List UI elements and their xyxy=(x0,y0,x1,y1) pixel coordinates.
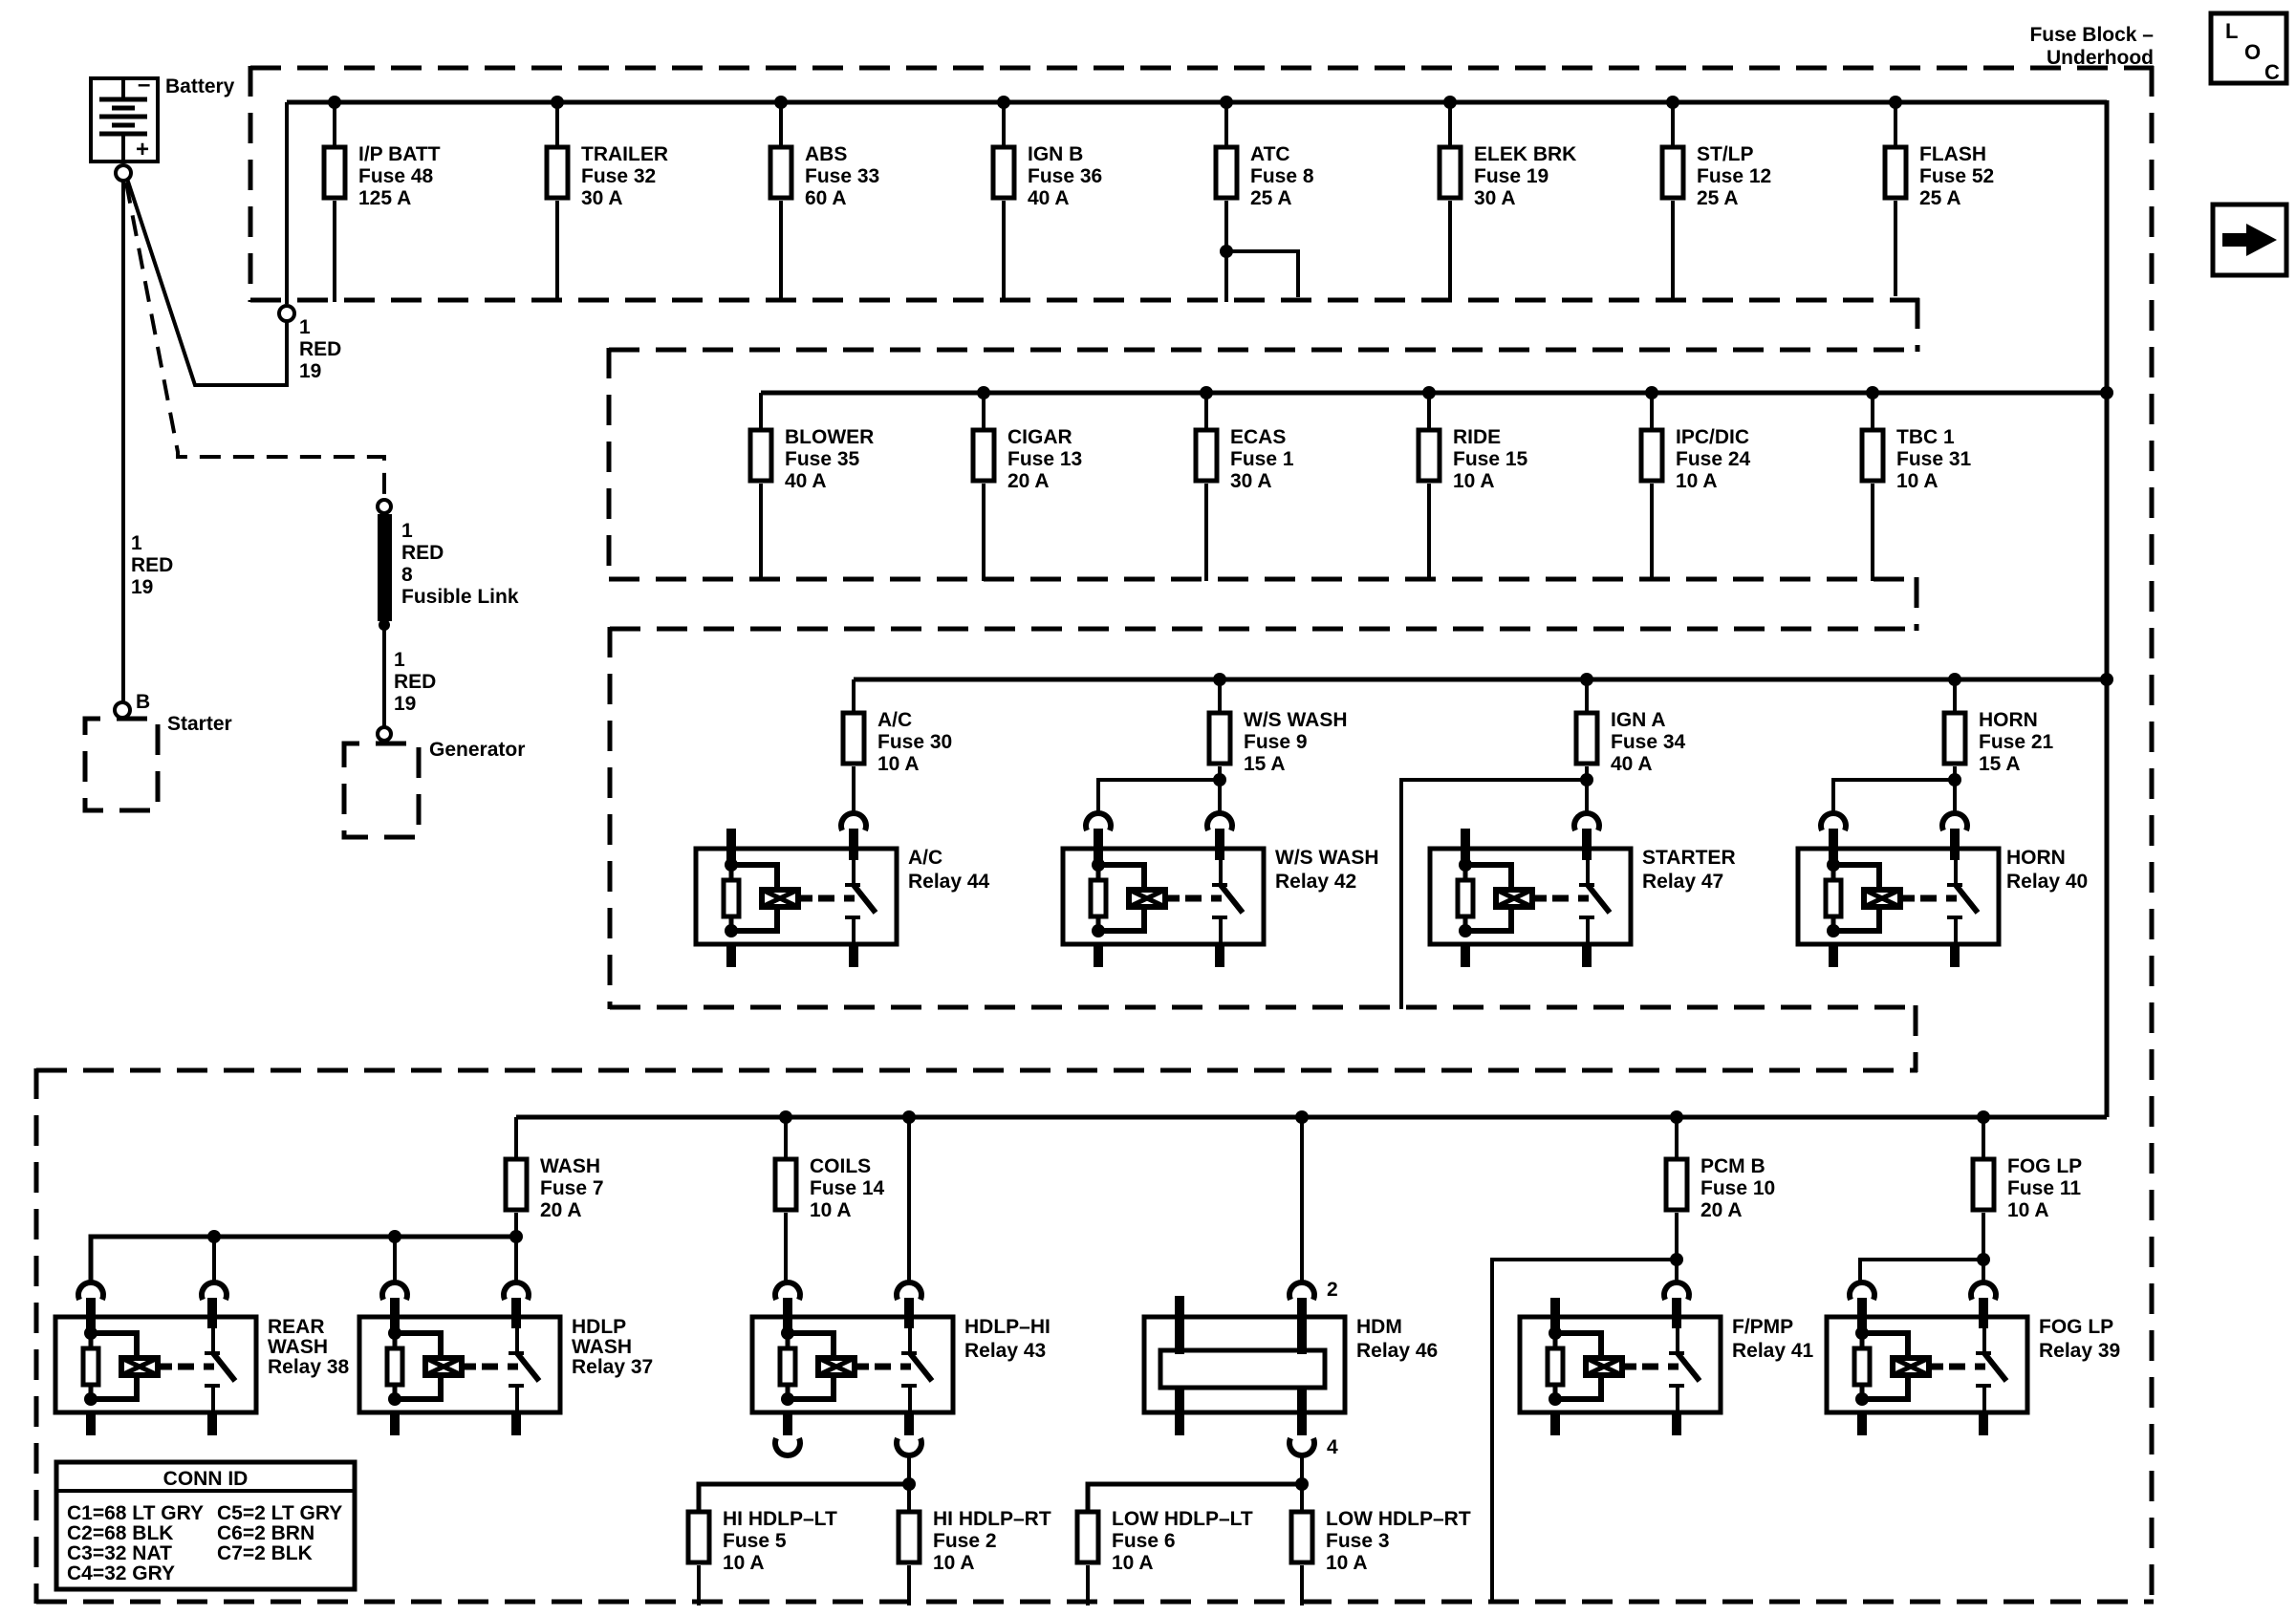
starter terminal ring xyxy=(115,702,130,718)
fuse block box2 bottom edge xyxy=(609,577,1918,582)
wire bus row3 xyxy=(854,678,2107,682)
svg-text:Fuse 30: Fuse 30 xyxy=(877,731,952,753)
fuse Fuse 3 LOW HDLP–RT 10 A + wire xyxy=(1291,1484,1471,1605)
svg-text:20 A: 20 A xyxy=(540,1199,582,1221)
svg-text:15 A: 15 A xyxy=(1244,753,1286,775)
svg-text:ECAS: ECAS xyxy=(1230,426,1286,448)
svg-text:10 A: 10 A xyxy=(723,1552,765,1574)
label Generator xyxy=(429,739,525,761)
svg-text:Fuse 12: Fuse 12 xyxy=(1697,165,1771,187)
svg-text:15 A: 15 A xyxy=(1979,753,2021,775)
junction dot bus3/vertical xyxy=(2100,673,2113,686)
svg-text:Fuse 32: Fuse 32 xyxy=(581,165,656,187)
connector arcs FOG LP relay xyxy=(1850,1282,1996,1300)
label FOG LP Relay 39 xyxy=(2039,1316,2120,1362)
connector ring fuse block feed xyxy=(279,306,294,321)
svg-text:40 A: 40 A xyxy=(785,470,827,492)
wire HDLP-HI switch to HI HDLP sub-bus xyxy=(907,1454,911,1484)
svg-text:Fuse 9: Fuse 9 xyxy=(1244,731,1308,753)
LOC reference box xyxy=(2211,13,2286,84)
svg-text:TRAILER: TRAILER xyxy=(581,143,668,165)
relay A/C Relay 44 xyxy=(696,829,897,967)
svg-text:8: 8 xyxy=(401,564,413,586)
wire bus row4 xyxy=(516,1115,2107,1120)
svg-text:Relay 39: Relay 39 xyxy=(2039,1340,2120,1362)
fuse block box2 left edge xyxy=(607,348,612,581)
svg-text:W/S WASH: W/S WASH xyxy=(1275,847,1379,869)
svg-text:1: 1 xyxy=(394,649,405,671)
svg-text:25 A: 25 A xyxy=(1919,187,1961,209)
label REAR WASH Relay 38 xyxy=(268,1316,350,1378)
fuse Fuse 24 IPC/DIC 10 A + wire xyxy=(1641,386,1751,581)
fusible link terminal ring top xyxy=(378,500,391,513)
svg-text:Starter: Starter xyxy=(167,713,232,735)
svg-text:1: 1 xyxy=(299,316,311,338)
wire feed into fuse block (node at x=300) xyxy=(285,102,289,304)
svg-text:30 A: 30 A xyxy=(581,187,623,209)
connector arc F/PMP relay pin xyxy=(1664,1282,1689,1300)
relay STARTER Relay 47 xyxy=(1430,829,1631,967)
fuse Fuse 21 HORN 15 A + wire xyxy=(1833,673,2054,811)
fuse block underhood dashed boundary (top edge) xyxy=(250,66,2154,71)
svg-text:Fuse 36: Fuse 36 xyxy=(1028,165,1102,187)
fusible link terminal ring bottom xyxy=(378,727,391,741)
svg-text:WASH: WASH xyxy=(268,1336,328,1358)
wire bus4 tap to HDLP-HI switch pin xyxy=(902,1110,916,1281)
svg-text:Fuse 13: Fuse 13 xyxy=(1007,448,1082,470)
svg-text:10 A: 10 A xyxy=(810,1199,852,1221)
svg-text:Fuse 7: Fuse 7 xyxy=(540,1177,604,1199)
svg-text:C2=68 BLK: C2=68 BLK xyxy=(67,1522,173,1544)
connector arcs W/S WASH relay xyxy=(1086,813,1232,830)
svg-text:Fuse 10: Fuse 10 xyxy=(1700,1177,1775,1199)
fuse block box1 bottom edge xyxy=(250,298,1919,303)
svg-text:FOG LP: FOG LP xyxy=(2007,1155,2082,1177)
wire wash relay sub-bus xyxy=(91,1230,523,1281)
svg-text:60 A: 60 A xyxy=(805,187,847,209)
fuse block box1 left edge xyxy=(249,66,253,302)
fuse Fuse 10 PCM B 20 A + wire xyxy=(1492,1110,1775,1604)
svg-text:BLOWER: BLOWER xyxy=(785,426,874,448)
svg-text:–: – xyxy=(138,72,150,97)
wire HDM pin 4 to LOW HDLP sub-bus xyxy=(1300,1454,1304,1484)
svg-text:HDLP: HDLP xyxy=(572,1316,626,1338)
svg-text:RED: RED xyxy=(394,671,436,693)
svg-text:ABS: ABS xyxy=(805,143,847,165)
svg-text:Relay 41: Relay 41 xyxy=(1732,1340,1814,1362)
svg-text:10 A: 10 A xyxy=(2007,1199,2049,1221)
fuse Fuse 48 I/P BATT 125 A + wire xyxy=(324,96,441,302)
svg-text:C6=2 BRN: C6=2 BRN xyxy=(217,1522,314,1544)
svg-text:LOW HDLP–LT: LOW HDLP–LT xyxy=(1112,1508,1253,1530)
label 1 RED 8 Fusible Link xyxy=(401,520,519,608)
svg-text:Fuse 35: Fuse 35 xyxy=(785,448,860,470)
fuse Fuse 19 ELEK BRK 30 A + wire xyxy=(1440,96,1576,302)
label 1 RED 19 (fuse block feed) xyxy=(299,316,341,382)
svg-text:125 A: 125 A xyxy=(358,187,411,209)
svg-text:C: C xyxy=(2264,60,2280,84)
svg-text:19: 19 xyxy=(299,360,321,382)
label 1 RED 19 (generator feed) xyxy=(394,649,436,715)
svg-text:REAR: REAR xyxy=(268,1316,325,1338)
svg-text:30 A: 30 A xyxy=(1230,470,1272,492)
svg-text:WASH: WASH xyxy=(572,1336,632,1358)
fuse Fuse 34 IGN A 40 A + wire xyxy=(1401,673,1686,1009)
fuse block box3 left edge xyxy=(608,627,613,1009)
svg-text:Relay 44: Relay 44 xyxy=(908,871,990,893)
svg-text:IGN A: IGN A xyxy=(1611,709,1666,731)
fuse block box2 top edge xyxy=(609,348,1919,353)
svg-text:20 A: 20 A xyxy=(1700,1199,1743,1221)
svg-text:FLASH: FLASH xyxy=(1919,143,1986,165)
svg-text:RED: RED xyxy=(299,338,341,360)
svg-text:WASH: WASH xyxy=(540,1155,600,1177)
fuse Fuse 9 W/S WASH 15 A + wire xyxy=(1098,673,1348,811)
svg-text:B: B xyxy=(136,691,150,713)
label Fuse Block - Underhood xyxy=(2029,24,2154,69)
svg-text:10 A: 10 A xyxy=(1326,1552,1368,1574)
fuse Fuse 52 FLASH 25 A + wire xyxy=(1885,96,1994,296)
svg-text:HDLP–HI: HDLP–HI xyxy=(964,1316,1051,1338)
svg-text:10 A: 10 A xyxy=(1676,470,1718,492)
wire battery to starter (1 RED 19) xyxy=(121,181,125,702)
fuse Fuse 5 HI HDLP–LT 10 A + wire xyxy=(688,1484,837,1605)
fuse Fuse 2 HI HDLP–RT 10 A + wire xyxy=(899,1484,1051,1605)
svg-text:10 A: 10 A xyxy=(933,1552,975,1574)
svg-text:ATC: ATC xyxy=(1250,143,1290,165)
relay REAR WASH Relay 38 xyxy=(55,1298,256,1435)
svg-text:2: 2 xyxy=(1327,1279,1338,1301)
svg-text:HI HDLP–LT: HI HDLP–LT xyxy=(723,1508,837,1530)
svg-text:C3=32 NAT: C3=32 NAT xyxy=(67,1542,172,1564)
connector arc STARTER relay pin xyxy=(1574,813,1599,830)
svg-text:Fuse 19: Fuse 19 xyxy=(1474,165,1549,187)
svg-text:Fuse 6: Fuse 6 xyxy=(1112,1530,1176,1552)
fuse block dashed boundary (right edge) xyxy=(2150,66,2155,1604)
svg-text:HORN: HORN xyxy=(2006,847,2066,869)
label HDLP-HI Relay 43 xyxy=(964,1316,1051,1362)
svg-text:10 A: 10 A xyxy=(1112,1552,1154,1574)
svg-text:PCM B: PCM B xyxy=(1700,1155,1765,1177)
svg-text:RED: RED xyxy=(401,542,444,564)
svg-text:Fuse 11: Fuse 11 xyxy=(2007,1177,2081,1199)
fuse Fuse 36 IGN B 40 A + wire xyxy=(993,96,1102,302)
svg-text:Fuse 14: Fuse 14 xyxy=(810,1177,885,1199)
svg-text:Fuse 48: Fuse 48 xyxy=(358,165,434,187)
wire bus row2 xyxy=(761,391,2107,396)
svg-text:IPC/DIC: IPC/DIC xyxy=(1676,426,1749,448)
svg-text:10 A: 10 A xyxy=(1896,470,1939,492)
svg-text:HDM: HDM xyxy=(1356,1316,1402,1338)
starter dashed box xyxy=(85,719,158,810)
svg-text:O: O xyxy=(2244,40,2261,64)
fuse Fuse 35 BLOWER 40 A + wire xyxy=(750,393,874,581)
fuse Fuse 32 TRAILER 30 A + wire xyxy=(547,96,668,302)
svg-text:COILS: COILS xyxy=(810,1155,871,1177)
wire battery to fusible link (dashed) xyxy=(126,183,384,498)
svg-text:Fuse 2: Fuse 2 xyxy=(933,1530,997,1552)
connector arcs HDLP-HI relay top xyxy=(775,1282,921,1300)
svg-text:Fusible Link: Fusible Link xyxy=(401,586,519,608)
svg-text:FOG LP: FOG LP xyxy=(2039,1316,2113,1338)
svg-text:Fuse Block –: Fuse Block – xyxy=(2029,24,2154,46)
svg-text:Relay 46: Relay 46 xyxy=(1356,1340,1438,1362)
connector arcs REAR WASH relay xyxy=(78,1282,227,1300)
wire LOW HDLP sub-bus xyxy=(1088,1477,1309,1510)
generator dashed box xyxy=(344,743,419,837)
wire bus row1 xyxy=(287,100,2107,105)
svg-text:TBC 1: TBC 1 xyxy=(1896,426,1955,448)
label Battery xyxy=(165,75,235,97)
svg-text:ST/LP: ST/LP xyxy=(1697,143,1754,165)
svg-text:RIDE: RIDE xyxy=(1453,426,1501,448)
svg-text:Fuse 1: Fuse 1 xyxy=(1230,448,1294,470)
fuse block box4 left edge xyxy=(34,1068,39,1604)
svg-text:Fuse 8: Fuse 8 xyxy=(1250,165,1314,187)
fuse Fuse 33 ABS 60 A + wire xyxy=(770,96,879,302)
fuse Fuse 1 ECAS 30 A + wire xyxy=(1196,386,1294,581)
relay HDLP-HI Relay 43 xyxy=(752,1298,953,1435)
fuse Fuse 31 TBC 1 10 A + wire xyxy=(1862,386,1972,581)
relay F/PMP Relay 41 xyxy=(1520,1298,1721,1435)
svg-text:Battery: Battery xyxy=(165,75,235,97)
CONN ID table xyxy=(56,1462,355,1589)
svg-text:25 A: 25 A xyxy=(1697,187,1739,209)
svg-text:19: 19 xyxy=(394,693,416,715)
svg-text:HI HDLP–RT: HI HDLP–RT xyxy=(933,1508,1051,1530)
label HDM Relay 46 xyxy=(1356,1316,1438,1362)
wire main vertical feed right side xyxy=(2105,100,2110,1117)
label B (starter terminal) xyxy=(136,691,150,713)
svg-text:40 A: 40 A xyxy=(1028,187,1070,209)
svg-text:Relay 42: Relay 42 xyxy=(1275,871,1356,893)
svg-text:Fuse 15: Fuse 15 xyxy=(1453,448,1528,470)
relay HORN Relay 40 xyxy=(1798,829,1999,967)
svg-text:Fuse 5: Fuse 5 xyxy=(723,1530,787,1552)
label W/S WASH Relay 42 xyxy=(1275,847,1379,893)
svg-text:STARTER: STARTER xyxy=(1642,847,1736,869)
svg-text:W/S WASH: W/S WASH xyxy=(1244,709,1348,731)
svg-text:L: L xyxy=(2225,19,2238,43)
svg-text:IGN B: IGN B xyxy=(1028,143,1083,165)
label 1 RED 19 (starter feed) xyxy=(131,532,173,598)
svg-text:25 A: 25 A xyxy=(1250,187,1292,209)
svg-text:19: 19 xyxy=(131,576,153,598)
fuse Fuse 15 RIDE 10 A + wire xyxy=(1419,386,1528,581)
fuse Fuse 6 LOW HDLP–LT 10 A + wire xyxy=(1077,1484,1253,1605)
svg-text:F/PMP: F/PMP xyxy=(1732,1316,1793,1338)
svg-text:Fuse 3: Fuse 3 xyxy=(1326,1530,1390,1552)
svg-text:LOW HDLP–RT: LOW HDLP–RT xyxy=(1326,1508,1471,1530)
fuse Fuse 12 ST/LP 25 A + wire xyxy=(1662,96,1771,302)
fuse Fuse 11 FOG LP 10 A + wire xyxy=(1860,1110,2082,1281)
connector arcs HDLP WASH relay xyxy=(382,1282,529,1300)
connector arc HDM pin 2 xyxy=(1289,1279,1338,1301)
svg-text:C7=2 BLK: C7=2 BLK xyxy=(217,1542,313,1564)
svg-text:Relay 47: Relay 47 xyxy=(1642,871,1723,893)
svg-text:1: 1 xyxy=(401,520,413,542)
label Starter xyxy=(167,713,232,735)
svg-text:RED: RED xyxy=(131,554,173,576)
svg-text:I/P BATT: I/P BATT xyxy=(358,143,441,165)
svg-text:C5=2 LT GRY: C5=2 LT GRY xyxy=(217,1502,342,1524)
fuse Fuse 30 A/C 10 A + wire xyxy=(843,679,952,811)
fuse block step box1-box2 xyxy=(1916,298,1920,352)
label A/C Relay 44 xyxy=(908,847,990,893)
svg-text:4: 4 xyxy=(1327,1436,1338,1458)
connector arcs HDLP-HI relay bottom xyxy=(775,1438,921,1455)
fuse Fuse 8 ATC 25 A + wire xyxy=(1216,96,1314,302)
svg-text:Fuse 24: Fuse 24 xyxy=(1676,448,1751,470)
relay W/S WASH Relay 42 xyxy=(1063,829,1264,967)
wire battery to fuse block feed xyxy=(127,179,287,385)
connector arc HDM pin 4 xyxy=(1289,1436,1338,1458)
svg-text:Fuse 31: Fuse 31 xyxy=(1896,448,1972,470)
label STARTER Relay 47 xyxy=(1642,847,1736,893)
fuse block box3 bottom edge xyxy=(610,1005,1917,1010)
wire bus4 tap to HDM pin 2 xyxy=(1295,1110,1309,1281)
svg-text:C4=32 GRY: C4=32 GRY xyxy=(67,1562,175,1584)
fuse Fuse 7 WASH 20 A + wire xyxy=(506,1117,604,1237)
svg-text:+: + xyxy=(136,137,149,162)
wire HI HDLP sub-bus xyxy=(699,1477,916,1510)
svg-text:1: 1 xyxy=(131,532,142,554)
svg-text:20 A: 20 A xyxy=(1007,470,1050,492)
fuse block step box2-box3 xyxy=(1915,577,1919,631)
svg-text:10 A: 10 A xyxy=(1453,470,1495,492)
svg-text:CONN ID: CONN ID xyxy=(163,1468,249,1490)
fusible link xyxy=(378,514,392,726)
fuse block step box3-box4 xyxy=(1914,1005,1918,1072)
svg-text:Underhood: Underhood xyxy=(2047,47,2154,69)
svg-text:HORN: HORN xyxy=(1979,709,2038,731)
connector arc A/C relay pin 86 xyxy=(841,813,866,830)
svg-text:Fuse 33: Fuse 33 xyxy=(805,165,879,187)
relay FOG LP Relay 39 xyxy=(1827,1298,2027,1435)
label HDLP WASH Relay 37 xyxy=(572,1316,653,1378)
svg-text:Relay 38: Relay 38 xyxy=(268,1356,350,1378)
fuse block box4 bottom edge xyxy=(36,1600,2154,1605)
svg-text:C1=68 LT GRY: C1=68 LT GRY xyxy=(67,1502,204,1524)
svg-text:CIGAR: CIGAR xyxy=(1007,426,1072,448)
connector arcs HORN relay xyxy=(1821,813,1967,830)
svg-text:Relay 37: Relay 37 xyxy=(572,1356,653,1378)
label HORN Relay 40 xyxy=(2006,847,2088,893)
fuse Fuse 14 COILS 10 A + wire xyxy=(775,1110,885,1281)
fuse block box4 top edge xyxy=(36,1068,1917,1073)
relay HDLP WASH Relay 37 xyxy=(359,1298,560,1435)
svg-text:Fuse 34: Fuse 34 xyxy=(1611,731,1686,753)
svg-text:10 A: 10 A xyxy=(877,753,920,775)
label F/PMP Relay 41 xyxy=(1732,1316,1814,1362)
relay HDM Relay 46 xyxy=(1144,1296,1345,1435)
svg-text:ELEK BRK: ELEK BRK xyxy=(1474,143,1576,165)
svg-text:A/C: A/C xyxy=(877,709,912,731)
battery xyxy=(91,72,158,162)
battery positive terminal ring xyxy=(116,165,131,181)
svg-text:Relay 43: Relay 43 xyxy=(964,1340,1046,1362)
fuse Fuse 13 CIGAR 20 A + wire xyxy=(973,386,1082,581)
svg-text:40 A: 40 A xyxy=(1611,753,1653,775)
svg-text:30 A: 30 A xyxy=(1474,187,1516,209)
svg-text:A/C: A/C xyxy=(908,847,942,869)
svg-text:Fuse 52: Fuse 52 xyxy=(1919,165,1994,187)
fuse block box3 top edge xyxy=(610,627,1918,632)
arrow continuation box xyxy=(2213,205,2286,275)
svg-text:Generator: Generator xyxy=(429,739,525,761)
svg-text:Fuse 21: Fuse 21 xyxy=(1979,731,2054,753)
junction dot bus2/vertical xyxy=(2100,386,2113,399)
svg-text:Relay 40: Relay 40 xyxy=(2006,871,2088,893)
